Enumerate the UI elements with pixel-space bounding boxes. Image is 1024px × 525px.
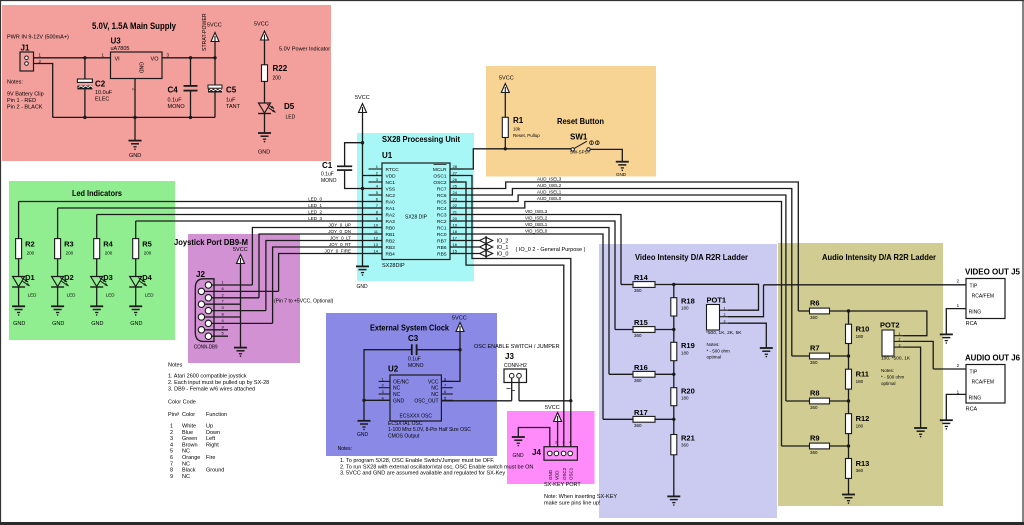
ground (audio ladder): [842, 495, 855, 504]
wire R2 to D1: [18, 259, 20, 277]
svg-text:* - 500 ohm: * - 500 ohm: [707, 349, 731, 354]
svg-text:D1: D1: [25, 273, 35, 282]
capacitor C4: [168, 58, 198, 118]
svg-text:R12: R12: [856, 414, 870, 423]
svg-text:GND: GND: [258, 150, 270, 156]
wire U2 GND to ground: [363, 400, 365, 421]
svg-text:RCA/FEM: RCA/FEM: [972, 294, 995, 300]
svg-text:360: 360: [810, 360, 818, 365]
svg-text:R21: R21: [681, 433, 695, 442]
svg-text:1-100 Mhz 5.0V, 8-Pin Half Siz: 1-100 Mhz 5.0V, 8-Pin Half Size OSC: [388, 427, 471, 433]
svg-text:180: 180: [681, 396, 689, 401]
pin 12 stub U1: [369, 235, 383, 240]
pin 23 stub U1: [450, 196, 463, 201]
svg-text:R5: R5: [142, 240, 152, 249]
LED D1: [12, 273, 37, 298]
svg-text:RA2: RA2: [386, 213, 396, 219]
svg-text:360: 360: [634, 378, 642, 383]
svg-text:CMOS Output: CMOS Output: [388, 434, 420, 440]
svg-text:3: 3: [724, 319, 726, 323]
power 5VCC arrow (supply output): [207, 23, 222, 42]
svg-text:GND: GND: [513, 453, 525, 459]
wire J1 pin1 to U3 VI: [34, 53, 111, 60]
svg-text:1: 1: [899, 332, 901, 336]
pin 5 stub U1: [369, 190, 383, 195]
svg-text:14: 14: [374, 248, 379, 253]
svg-text:POT2: POT2: [880, 321, 900, 330]
ground (LED 4): [129, 306, 142, 327]
wire D4 to ground: [135, 287, 137, 306]
ground (clock): [357, 421, 371, 438]
svg-text:OE/NC: OE/NC: [393, 379, 409, 385]
svg-text:5VCC: 5VCC: [254, 22, 269, 28]
svg-text:AUD_ISEL2: AUD_ISEL2: [537, 183, 562, 188]
svg-text:100, *500, 1K: 100, *500, 1K: [881, 356, 911, 362]
svg-text:PWR IN 9-12V (500mA+): PWR IN 9-12V (500mA+): [7, 35, 69, 41]
svg-text:5: 5: [170, 449, 173, 455]
svg-text:10.0uF: 10.0uF: [95, 90, 113, 96]
title: Joystick Port DB9-M: [174, 238, 248, 247]
svg-text:RC7: RC7: [437, 187, 447, 193]
svg-text:NC: NC: [182, 474, 190, 480]
svg-text:5VCC: 5VCC: [499, 76, 514, 82]
svg-text:LED_3: LED_3: [308, 216, 322, 221]
svg-text:5VCC: 5VCC: [545, 405, 560, 411]
ground (SX28): [356, 266, 369, 290]
svg-text:SX-KEY PORT: SX-KEY PORT: [544, 482, 581, 488]
svg-text:0.1uF: 0.1uF: [408, 357, 421, 363]
svg-text:5VCC: 5VCC: [207, 23, 222, 29]
svg-text:22: 22: [453, 203, 458, 208]
pin 7 stub U1: [369, 203, 383, 208]
svg-text:LED_2: LED_2: [308, 209, 322, 214]
title: 5.0V Power Indicator: [279, 47, 330, 53]
svg-text:360: 360: [810, 450, 818, 455]
wire SW1 to ground: [590, 149, 622, 161]
svg-text:Fire: Fire: [206, 455, 215, 461]
svg-text:JOY_0_RT: JOY_0_RT: [329, 242, 351, 247]
svg-text:Black: Black: [182, 468, 196, 474]
svg-text:OSC2: OSC2: [433, 180, 446, 186]
svg-text:( IO_0 2 - General Purpose ): ( IO_0 2 - General Purpose ): [516, 247, 586, 253]
title: OSC enable switch: [474, 344, 560, 350]
svg-text:OSC1: OSC1: [568, 467, 573, 480]
svg-text:GND: GND: [357, 284, 369, 290]
svg-text:D4: D4: [142, 273, 152, 282]
wire R4 to D3: [96, 259, 98, 277]
svg-text:200: 200: [27, 251, 35, 256]
svg-text:0.1uF: 0.1uF: [168, 98, 183, 104]
wire JOY_0_DN net: [259, 229, 382, 298]
svg-text:Pin 1 - RED: Pin 1 - RED: [7, 98, 36, 104]
connector J3 CONN-H2: [504, 352, 527, 391]
svg-text:GND: GND: [616, 172, 627, 177]
svg-text:*500, 1K, 2K, 5K: *500, 1K, 2K, 5K: [706, 330, 742, 336]
svg-text:RB6: RB6: [437, 245, 447, 251]
wire POT2 pin3 to ground: [903, 347, 921, 428]
wire AUD_ISEL1 net: [450, 190, 786, 401]
svg-text:16: 16: [453, 242, 458, 247]
pin 26 stub U1: [450, 177, 463, 182]
svg-text:D2: D2: [64, 273, 74, 282]
svg-text:U1: U1: [382, 151, 393, 160]
svg-text:uA7805: uA7805: [111, 46, 130, 52]
pin 5 stub U2: [441, 395, 452, 400]
resistor R18: [671, 297, 695, 317]
svg-text:R2: R2: [25, 240, 35, 249]
block: Reset Button region: [486, 66, 656, 177]
svg-text:VO: VO: [151, 57, 160, 63]
svg-text:J4: J4: [532, 448, 541, 457]
wire video ladder rail: [673, 285, 675, 497]
ground (SX-KEY): [512, 437, 525, 459]
note: color code table: [168, 400, 227, 480]
svg-text:4: 4: [170, 442, 173, 448]
wire J6 ring to ground: [946, 394, 966, 420]
svg-text:25: 25: [453, 183, 458, 188]
ground (joystick): [234, 348, 247, 357]
resistor R4: [94, 239, 114, 259]
svg-text:R9: R9: [810, 434, 820, 443]
svg-text:Brown: Brown: [182, 442, 198, 448]
pin 16 stub U1: [450, 242, 463, 247]
svg-text:R1: R1: [513, 116, 524, 125]
wire J5 ring to ground: [946, 309, 966, 335]
svg-text:360: 360: [810, 405, 818, 410]
svg-text:2: 2: [899, 338, 901, 342]
svg-text:Notes:: Notes:: [7, 80, 23, 86]
svg-text:VDD: VDD: [386, 174, 397, 180]
pin 25 stub U1: [450, 183, 463, 188]
pin 15 stub U1: [450, 248, 463, 253]
svg-text:Reset, Pullup: Reset, Pullup: [513, 133, 540, 138]
resistor R21: [671, 433, 695, 455]
svg-text:RB3: RB3: [386, 245, 396, 251]
wire J4 GND to ground: [518, 428, 550, 448]
svg-text:Color Code: Color Code: [168, 400, 196, 406]
svg-text:AUD_ISEL1: AUD_ISEL1: [537, 190, 562, 195]
wire R1 to MCLR net: [504, 138, 507, 151]
svg-text:JOY_0_FIRE: JOY_0_FIRE: [324, 248, 351, 253]
label SX-KEY PORT: [544, 482, 581, 488]
pin 20 stub U1: [450, 216, 463, 221]
svg-text:JOY_0_UP: JOY_0_UP: [328, 222, 351, 227]
wire JOY_0_FIRE net: [279, 248, 382, 291]
svg-text:15: 15: [453, 248, 458, 253]
svg-text:RA3: RA3: [386, 219, 396, 225]
connector J5 video out: [957, 268, 1021, 328]
block: External System Clock region: [326, 313, 497, 456]
svg-text:RB0: RB0: [386, 226, 396, 232]
wire VSS to ground: [362, 189, 364, 267]
port IO_0: [450, 249, 508, 258]
svg-text:NC: NC: [431, 392, 439, 398]
wire OSC_OUT net: [441, 400, 570, 402]
svg-text:27: 27: [453, 170, 458, 175]
svg-text:GND: GND: [129, 153, 141, 159]
svg-text:RC2: RC2: [437, 219, 447, 225]
pin 6 stub U2: [441, 389, 452, 394]
svg-text:180: 180: [856, 334, 864, 339]
svg-text:RCA/FEM: RCA/FEM: [972, 380, 995, 386]
svg-text:7: 7: [170, 461, 173, 467]
title: Video Intensity D/A R2R Ladder: [635, 253, 748, 262]
svg-text:R15: R15: [634, 318, 648, 327]
svg-text:4: 4: [569, 441, 571, 445]
ground (LED 1): [12, 306, 25, 327]
svg-text:NC: NC: [393, 392, 401, 398]
resistor R22: [262, 64, 288, 82]
wire MCLR net: [450, 149, 571, 169]
pin 6 stub U1: [369, 196, 383, 201]
wire JOY_0_UP net: [252, 222, 382, 285]
pin 27 stub U1: [450, 170, 463, 175]
svg-text:360: 360: [856, 468, 864, 473]
power 5VCC arrow (reset): [499, 76, 514, 93]
svg-text:RCA: RCA: [966, 321, 978, 327]
svg-text:(Pin 7 to +5VCC, Optional): (Pin 7 to +5VCC, Optional): [274, 299, 334, 305]
svg-text:D3: D3: [103, 273, 113, 282]
wire LED_1 net: [58, 203, 382, 239]
svg-text:3: 3: [899, 343, 901, 347]
title: Led Indicators: [72, 189, 122, 198]
pin 19 stub U1: [450, 222, 463, 227]
wire JOY_0_RT net: [273, 242, 382, 324]
svg-text:21: 21: [453, 209, 458, 214]
switch SW1: [570, 133, 599, 155]
ground (J6): [940, 420, 953, 429]
pin 4 stub U2: [379, 395, 390, 400]
svg-text:9: 9: [170, 474, 173, 480]
svg-text:SX28 DIP: SX28 DIP: [405, 215, 428, 221]
wire LED_2 net: [97, 209, 382, 238]
ground (J5): [940, 334, 953, 343]
svg-text:Notes:: Notes:: [707, 342, 720, 347]
chip U1 SX28: [382, 151, 450, 269]
svg-text:SX28 Processing Unit: SX28 Processing Unit: [382, 135, 460, 144]
pin 18 stub U1: [450, 229, 463, 234]
svg-text:LED: LED: [145, 293, 155, 298]
potentiometer POT1: [706, 296, 742, 337]
svg-text:R16: R16: [634, 363, 648, 372]
svg-text:1. Atari 2600 compatible joyst: 1. Atari 2600 compatible joystick: [168, 374, 247, 380]
wire LED_0 net: [19, 196, 382, 238]
svg-text:Pin 2 - BLACK: Pin 2 - BLACK: [7, 105, 43, 111]
svg-text:5VCC: 5VCC: [355, 95, 370, 101]
note: SX-KEY insertion: [544, 494, 617, 507]
pin 21 stub U1: [450, 209, 463, 214]
svg-text:5.0V, 1.5A Main Supply: 5.0V, 1.5A Main Supply: [92, 21, 176, 31]
svg-text:RC1: RC1: [437, 226, 447, 232]
svg-text:SW1: SW1: [570, 133, 588, 142]
pin 22 stub U1: [450, 203, 463, 208]
connector J2 pin 4: [205, 318, 272, 327]
svg-text:Green: Green: [182, 436, 197, 442]
resistor R1: [502, 116, 540, 138]
svg-text:NC: NC: [431, 386, 439, 392]
svg-text:CONN-DB9: CONN-DB9: [194, 345, 218, 351]
svg-text:Left: Left: [206, 436, 216, 442]
wire 5VCC to R22: [264, 40, 266, 65]
svg-text:R14: R14: [634, 273, 649, 282]
wire ground rail: [53, 116, 215, 119]
wire AUD_ISEL0 net: [450, 196, 782, 446]
svg-text:200: 200: [105, 251, 113, 256]
svg-text:RC5: RC5: [437, 200, 447, 206]
svg-text:GND: GND: [393, 398, 405, 404]
ground (main supply): [129, 141, 142, 159]
svg-text:LED: LED: [286, 115, 296, 121]
resistor R14: [621, 273, 676, 293]
connector J6 audio out: [957, 354, 1021, 413]
wire POT2 wiper to audio out: [903, 341, 966, 369]
resistor R5: [133, 239, 152, 259]
svg-text:TIP: TIP: [970, 370, 978, 376]
capacitor C1: [321, 143, 363, 189]
block: Led Indicators region: [9, 181, 175, 340]
svg-text:360: 360: [634, 288, 642, 293]
svg-text:23: 23: [453, 196, 458, 201]
svg-text:10: 10: [374, 222, 379, 227]
resistor R9: [782, 434, 851, 456]
port IO_1: [450, 243, 508, 252]
svg-text:180: 180: [856, 423, 864, 428]
block: Audio Intensity D/A R2R Ladder region: [778, 243, 943, 506]
title: 5.0V 1.5A Main Supply: [7, 21, 176, 41]
svg-text:R8: R8: [810, 389, 820, 398]
svg-text:10k: 10k: [513, 127, 521, 132]
svg-text:VCC: VCC: [428, 379, 439, 385]
svg-text:LED: LED: [67, 293, 77, 298]
svg-text:RC3: RC3: [437, 213, 447, 219]
wire VID_ISEL0 net: [450, 229, 603, 420]
ground (POT1): [760, 348, 773, 357]
svg-text:200: 200: [273, 76, 282, 82]
wire audio ladder rail: [848, 311, 850, 495]
svg-text:Right: Right: [206, 442, 219, 448]
power 5VCC arrow (joystick): [233, 247, 248, 264]
svg-text:NC2: NC2: [386, 193, 396, 199]
svg-text:MONO: MONO: [321, 178, 337, 184]
wire R5 to D4: [135, 259, 137, 277]
connector J2 pin 1: [205, 280, 252, 289]
svg-text:AUDIO OUT J6: AUDIO OUT J6: [965, 354, 1021, 363]
svg-text:180: 180: [681, 350, 689, 355]
resistor R16: [609, 363, 676, 383]
ground (reset): [616, 162, 629, 177]
connector J2 pin 7: [198, 299, 240, 308]
svg-text:TIP: TIP: [970, 284, 978, 290]
svg-text:5.0V Power Indicator: 5.0V Power Indicator: [279, 47, 330, 53]
svg-text:LED_0: LED_0: [308, 196, 322, 201]
svg-text:RB1: RB1: [386, 232, 396, 238]
svg-text:180: 180: [856, 379, 864, 384]
svg-text:External System Clock: External System Clock: [370, 323, 449, 333]
LED D2: [51, 273, 76, 298]
svg-text:360: 360: [634, 333, 642, 338]
resistor R19: [671, 341, 695, 361]
svg-text:U3: U3: [111, 37, 122, 46]
pin 7 stub U2: [441, 383, 452, 388]
block: Video Intensity D/A R2R Ladder region: [599, 244, 777, 518]
svg-text:C1: C1: [322, 161, 333, 170]
svg-text:18: 18: [453, 229, 458, 234]
svg-text:OSC ENABLE SWITCH / JUMPER: OSC ENABLE SWITCH / JUMPER: [474, 344, 560, 350]
svg-text:White: White: [182, 424, 196, 430]
svg-text:200: 200: [144, 251, 152, 256]
svg-text:IO_0: IO_0: [497, 252, 509, 258]
svg-text:8: 8: [170, 468, 173, 474]
svg-text:J3: J3: [505, 352, 514, 361]
svg-text:Pin#: Pin#: [168, 412, 180, 418]
resistor R15: [615, 318, 676, 338]
wire audio top node to POT2 pin1: [849, 311, 927, 336]
resistor R17: [603, 408, 676, 428]
svg-text:6: 6: [170, 455, 173, 461]
svg-text:1: 1: [170, 424, 173, 430]
capacitor C2: [77, 58, 112, 118]
wire VID_ISEL1 net: [450, 222, 609, 374]
svg-text:R13: R13: [856, 459, 870, 468]
svg-text:1. To program SX28, OSC Enable: 1. To program SX28, OSC Enable Switch/Ju…: [340, 458, 495, 464]
svg-text:JOY_0_DN: JOY_0_DN: [328, 229, 351, 234]
svg-text:28: 28: [453, 164, 458, 169]
wire J3 pin2 to OSC1: [518, 378, 520, 401]
svg-text:NC: NC: [182, 461, 190, 467]
svg-text:13: 13: [374, 242, 379, 247]
svg-text:IO_2: IO_2: [497, 239, 509, 245]
svg-text:J1: J1: [21, 44, 30, 53]
resistor R6: [798, 299, 850, 321]
connector J2 pin 3: [205, 305, 266, 314]
svg-text:LED_1: LED_1: [308, 203, 322, 208]
svg-text:RB2: RB2: [386, 239, 396, 245]
note: battery clip: [7, 80, 44, 111]
block: Joystick Port DB9-M region: [188, 234, 300, 363]
svg-text:R19: R19: [681, 341, 695, 350]
svg-text:R7: R7: [810, 344, 820, 353]
wire LED_3 net: [136, 216, 382, 239]
svg-text:VSS: VSS: [386, 187, 396, 193]
svg-text:RC6: RC6: [437, 193, 447, 199]
svg-text:20: 20: [453, 216, 458, 221]
wire AUD_ISEL2 net: [450, 183, 792, 356]
svg-text:R4: R4: [103, 240, 113, 249]
svg-text:R10: R10: [856, 325, 870, 334]
wire 5VCC to VDD/VSS column: [361, 113, 382, 191]
svg-text:C4: C4: [168, 86, 179, 95]
svg-text:1: 1: [724, 306, 726, 310]
wire 5VCC to U2 VCC: [417, 332, 462, 382]
svg-text:AUD_ISEL3: AUD_ISEL3: [537, 177, 562, 182]
svg-text:VIDEO OUT J5: VIDEO OUT J5: [965, 268, 1021, 277]
wire POT1 pin3 to ground: [728, 323, 767, 348]
svg-text:MCLR: MCLR: [433, 167, 447, 173]
svg-text:Orange: Orange: [182, 455, 200, 461]
power 5VCC arrow (SX28): [355, 95, 370, 113]
svg-text:ECSXTAL OSC: ECSXTAL OSC: [388, 421, 423, 427]
svg-text:ELEC: ELEC: [95, 97, 109, 103]
power 5VCC arrow (clock): [452, 316, 467, 332]
svg-text:RCA: RCA: [966, 407, 978, 413]
svg-text:R18: R18: [681, 297, 695, 306]
svg-text:RING: RING: [969, 396, 982, 402]
svg-text:360: 360: [810, 315, 818, 320]
connector J2 pin 8: [198, 312, 240, 321]
svg-text:RA1: RA1: [386, 206, 396, 212]
pin 13 stub U1: [369, 242, 383, 247]
connector J1: [20, 44, 42, 72]
